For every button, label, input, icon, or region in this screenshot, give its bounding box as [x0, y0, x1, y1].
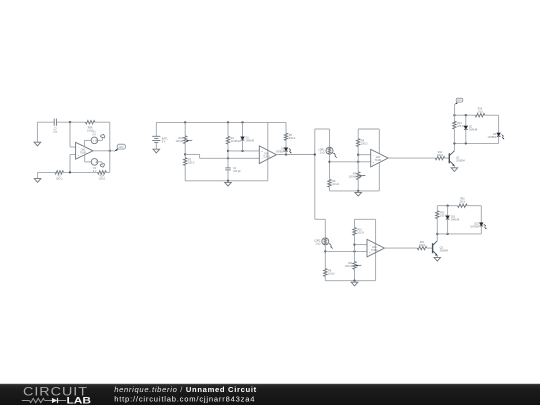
flag VCC	[454, 104, 456, 115]
potentiometer R7	[357, 172, 360, 180]
svg-text:1 kΩ: 1 kΩ	[478, 111, 483, 114]
svg-text:1N4148: 1N4148	[469, 129, 478, 132]
resistor R9	[324, 269, 327, 277]
resistor R20	[458, 204, 468, 207]
svg-text:100 kΩ: 100 kΩ	[176, 140, 184, 143]
battery BAT1	[155, 122, 157, 136]
svg-text:henrique.tiberio / Unnamed Cir: henrique.tiberio / Unnamed Circuit	[114, 385, 256, 394]
wire V stub circuit3	[378, 129, 380, 191]
svg-text:100 Ω: 100 Ω	[357, 231, 364, 234]
diode D1	[242, 122, 244, 136]
svg-text:330 Ω: 330 Ω	[289, 137, 296, 140]
wire R10 to pot	[354, 235, 356, 261]
svg-text:100 Ω: 100 Ω	[457, 125, 464, 128]
capacitor C1	[225, 167, 230, 169]
wire bottom rail circuit1	[38, 171, 55, 173]
supply flag node V1	[101, 137, 103, 140]
wire top row circuit6	[437, 205, 457, 207]
wire collector row	[454, 142, 498, 144]
wire rail jog circuit4	[315, 218, 326, 220]
svg-text:VCC: VCC	[458, 100, 463, 102]
ground Q1	[451, 168, 458, 172]
node A junction	[69, 121, 71, 123]
potentiometer R3A	[184, 122, 186, 135]
junction step crossing	[227, 157, 229, 159]
resistor R21	[417, 246, 427, 249]
ground Q2	[434, 257, 441, 261]
wire top node row	[454, 114, 475, 116]
wire top rail circuit1	[37, 121, 54, 123]
transistor Q1	[448, 153, 450, 163]
wire left rail circuit3	[314, 129, 316, 219]
ground bottom-left	[37, 172, 39, 178]
wire emitter Q1 to ground	[453, 166, 455, 168]
svg-text:OA3: OA3	[376, 156, 381, 159]
svg-text:100 kΩ: 100 kΩ	[349, 175, 357, 178]
svg-text:1N758A: 1N758A	[276, 151, 285, 154]
junction D13 top	[446, 205, 448, 207]
photoresistor LDR2	[322, 238, 329, 245]
LED D15	[479, 223, 483, 226]
junction collector row	[453, 142, 455, 144]
transistor Q2	[432, 243, 434, 253]
wire upper input line circuit3	[358, 154, 371, 156]
resistor R22	[436, 206, 438, 211]
svg-text:1 kΩ: 1 kΩ	[320, 152, 325, 155]
wire bottom rail circuit4	[325, 280, 375, 282]
photoresistor LDR1	[326, 147, 333, 154]
junction inverting tap	[184, 153, 186, 155]
resistor R6	[357, 139, 360, 147]
junction LDR1 tap	[328, 161, 330, 163]
wire R6 to pot	[357, 147, 359, 172]
svg-text:http://circuitlab.com/cjjnarr8: http://circuitlab.com/cjjnarr843za4	[114, 395, 254, 404]
junction ground circuit3	[357, 190, 359, 192]
wire output op-amp3	[388, 157, 435, 159]
svg-text:100 Ω: 100 Ω	[419, 244, 426, 247]
svg-text:100 Ω: 100 Ω	[188, 161, 195, 164]
junction collector row circuit6	[436, 233, 438, 235]
resistor R13	[453, 115, 455, 121]
svg-text:OUT: OUT	[119, 147, 124, 149]
wire output op-amp4	[384, 247, 417, 249]
svg-text:1N758A: 1N758A	[488, 136, 497, 139]
flag OUT	[114, 148, 118, 151]
svg-text:100 k: 100 k	[459, 201, 466, 204]
op-amp OA4	[367, 239, 384, 257]
ground top-left	[34, 142, 41, 146]
resistor R5A	[86, 121, 95, 124]
svg-text:TL081: TL081	[263, 157, 270, 159]
svg-text:10 kΩ: 10 kΩ	[332, 183, 339, 186]
resistor R1	[55, 171, 64, 174]
potentiometer R11	[353, 262, 356, 270]
wire LED D3 branch	[498, 115, 500, 133]
ground circuit3	[357, 191, 359, 193]
wire non-inverting input	[70, 154, 76, 156]
wire LDR1 branch	[329, 129, 331, 147]
wire LDR2 to R9	[324, 245, 326, 269]
svg-text:LAB: LAB	[67, 395, 92, 405]
voltage source V1	[84, 139, 91, 141]
svg-text:TL081: TL081	[371, 250, 378, 252]
svg-text:TL081: TL081	[375, 160, 382, 162]
svg-text:OA4: OA4	[372, 246, 377, 249]
wire top box circuit4	[355, 218, 376, 220]
svg-text:9 V: 9 V	[92, 133, 96, 136]
op-amp OA3	[371, 149, 388, 167]
resistor R4	[227, 122, 229, 136]
wire noninverting input line	[228, 150, 259, 152]
resistor R14	[475, 114, 485, 117]
wire step to inverting input	[185, 153, 199, 155]
ground circuit4	[354, 281, 356, 283]
resistor R5	[284, 133, 287, 140]
wire collector Q1	[453, 143, 455, 150]
op-amp OA2	[259, 146, 276, 164]
wire collector row circuit6	[437, 233, 481, 235]
wire LED D15 branch	[480, 206, 482, 223]
wire lower input line circuit3	[330, 161, 371, 163]
svg-text:1N758A: 1N758A	[470, 226, 479, 229]
wire output op-amp1	[93, 150, 114, 152]
svg-text:2N3904: 2N3904	[456, 159, 465, 162]
svg-text:10.08 kΩ: 10.08 kΩ	[231, 140, 241, 143]
svg-text:OA2: OA2	[264, 153, 269, 156]
wire output op-amp2	[276, 154, 314, 156]
logo schematic doodle	[22, 400, 30, 402]
svg-text:2N3904: 2N3904	[440, 249, 449, 252]
wire rail top horizontal	[315, 128, 330, 130]
wire right rail circuit1	[109, 122, 111, 172]
wire top rail circuit2	[156, 121, 286, 123]
wire V+ stub op-amp1	[83, 140, 85, 146]
LED D3	[497, 133, 501, 136]
junction upper input tap circuit4	[353, 243, 355, 245]
junction D1 bottom	[241, 150, 243, 152]
junction D2 bottom	[465, 142, 467, 144]
ground battery	[153, 149, 160, 153]
junction R4 top	[227, 121, 229, 123]
wire upper input line circuit4	[355, 244, 368, 246]
wire bottom rail circuit3	[330, 190, 380, 192]
junction LED branch	[285, 153, 287, 155]
wire pot to R2	[184, 144, 186, 158]
junction output right rail	[109, 150, 111, 152]
resistor R10	[353, 228, 356, 236]
wire power stub op-amp2	[267, 122, 269, 180]
wire bottom rail circuit2	[185, 180, 268, 182]
wire top box circuit3	[358, 128, 379, 130]
diode D13	[447, 206, 449, 216]
wire collector Q2	[436, 234, 438, 241]
svg-text:100 kΩ: 100 kΩ	[345, 265, 353, 268]
wire LDR1 to R8	[329, 154, 331, 179]
wire R5 LED branch	[285, 122, 287, 133]
voltage source V2	[85, 161, 92, 163]
junction C1 ground	[227, 180, 229, 182]
svg-text:100 Ω: 100 Ω	[56, 178, 63, 181]
diode D2	[465, 115, 467, 126]
svg-text:100 Ω: 100 Ω	[361, 143, 368, 146]
junction rail input	[314, 153, 316, 155]
wire inverting input	[69, 122, 71, 147]
wire left vertical to ground	[36, 122, 38, 142]
svg-text:1N4148: 1N4148	[451, 218, 460, 221]
junction D2 top	[465, 114, 467, 116]
svg-text:10 kΩ: 10 kΩ	[328, 273, 335, 276]
junction lower crossing circuit4	[353, 250, 355, 252]
op-amp OA5	[76, 142, 93, 159]
junction upper input tap	[357, 154, 359, 156]
junction pot branch	[184, 121, 186, 123]
svg-text:OA5: OA5	[81, 149, 86, 152]
wire R21 to base	[427, 247, 433, 249]
junction ground circuit4	[353, 280, 355, 282]
junction top node	[453, 114, 455, 116]
resistor R12	[435, 156, 445, 159]
junction bottom rail	[69, 171, 71, 173]
svg-text:1 kΩ: 1 kΩ	[315, 242, 320, 245]
junction LDR2 tap	[324, 250, 326, 252]
junction noninverting line	[227, 150, 229, 152]
svg-text:10n: 10n	[53, 130, 58, 133]
supply flag node V2	[101, 162, 103, 164]
ground circuit2	[227, 181, 229, 183]
wire R4 branch down	[227, 144, 229, 168]
wire emitter Q2 to ground	[436, 255, 438, 257]
svg-text:100 μF: 100 μF	[233, 170, 241, 173]
svg-text:100 Ω: 100 Ω	[99, 178, 106, 181]
resistor R2A	[98, 171, 107, 174]
svg-text:TL081: TL081	[80, 153, 87, 155]
resistor R8	[328, 179, 331, 187]
wire V- stub op-amp1	[84, 155, 86, 162]
resistor R2	[184, 158, 187, 166]
svg-text:1N4148: 1N4148	[246, 139, 255, 142]
wire R12 to base	[445, 157, 450, 159]
wire V stub circuit4	[375, 219, 377, 280]
junction D13 bottom	[446, 233, 448, 235]
svg-text:9 V: 9 V	[162, 140, 166, 143]
LED D5	[285, 140, 287, 147]
junction lower line crossing	[357, 161, 359, 163]
wire lower input line circuit4	[325, 250, 367, 252]
capacitor C2	[53, 119, 55, 126]
junction D1 top	[241, 121, 243, 123]
svg-text:100 Ω: 100 Ω	[437, 154, 444, 157]
